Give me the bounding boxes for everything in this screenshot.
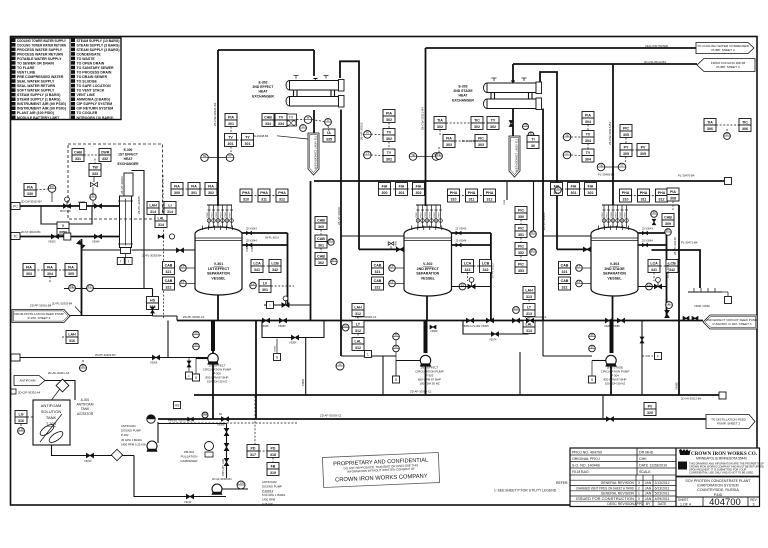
svg-text:TV: TV: [289, 116, 294, 120]
svg-text:2D-AH-30313-B4: 2D-AH-30313-B4: [681, 397, 701, 401]
svg-text:V-302: V-302: [423, 262, 432, 266]
svg-text:TI: TI: [530, 131, 533, 135]
svg-text:ZD-PF-30302-C1: ZD-PF-30302-C1: [183, 315, 205, 319]
svg-text:CAB: CAB: [317, 237, 325, 241]
svg-text:LAL: LAL: [158, 216, 166, 220]
svg-text:L: L: [367, 352, 369, 356]
svg-text:FB: FB: [271, 464, 276, 468]
svg-text:ZD-PF-30302-B4: ZD-PF-30302-B4: [95, 353, 116, 357]
svg-text:HEAT: HEAT: [259, 90, 269, 94]
svg-text:PT: PT: [329, 238, 333, 242]
svg-text:322: 322: [375, 285, 381, 289]
svg-text:25 V3043: 25 V3043: [246, 228, 257, 231]
svg-text:TW: TW: [92, 165, 98, 169]
svg-text:301: 301: [262, 288, 268, 292]
svg-text:LG: LG: [344, 324, 349, 328]
svg-text:PIC: PIC: [623, 126, 629, 130]
svg-text:LG: LG: [19, 412, 24, 416]
svg-text:TI: TI: [531, 137, 534, 141]
svg-text:PIC: PIC: [518, 244, 524, 248]
svg-text:45 GPH 1 BARG: 45 GPH 1 BARG: [121, 438, 142, 442]
svg-text:V3000: V3000: [207, 211, 209, 218]
svg-text:100 TDH 30 HZ: 100 TDH 30 HZ: [419, 382, 439, 386]
svg-text:310: 310: [243, 197, 249, 201]
svg-text:TE: TE: [411, 153, 415, 157]
svg-text:ANTIFOAM: ANTIFOAM: [76, 403, 93, 407]
svg-text:5/23/2011: 5/23/2011: [655, 492, 670, 496]
svg-text:313: 313: [526, 295, 532, 299]
svg-text:TI: TI: [307, 116, 310, 120]
svg-text:V3004: V3004: [92, 240, 100, 244]
svg-text:CWR: CWR: [101, 150, 110, 154]
svg-text:LAH: LAH: [68, 332, 76, 336]
svg-text:360: 360: [318, 225, 324, 229]
svg-text:2D-PL-30305-B4: 2D-PL-30305-B4: [142, 254, 162, 258]
svg-text:302: 302: [386, 118, 392, 122]
svg-text:V3088: V3088: [675, 382, 679, 390]
svg-text:MCV-300: MCV-300: [60, 209, 71, 213]
svg-text:AGITATOR: AGITATOR: [77, 412, 94, 416]
svg-text:LT: LT: [181, 264, 184, 268]
svg-text:LT: LT: [577, 264, 580, 268]
svg-text:V3064: V3064: [289, 341, 297, 345]
svg-text:EXCHANGER: EXCHANGER: [452, 98, 474, 102]
svg-text:FROM DISTILLATION FEED PUMP: FROM DISTILLATION FEED PUMP: [14, 312, 63, 316]
svg-text:ANTIFOAM: ANTIFOAM: [121, 424, 136, 428]
svg-text:TO COOLER: TO COOLER: [77, 111, 98, 115]
svg-text:V3033: V3033: [430, 211, 432, 218]
svg-text:301: 301: [245, 142, 251, 146]
svg-text:SOFT WATER SUPPLY: SOFT WATER SUPPLY: [17, 89, 55, 93]
svg-text:TE: TE: [365, 131, 369, 135]
svg-text:TO DISTILLATION FEED: TO DISTILLATION FEED: [711, 417, 747, 421]
svg-text:DOSING PUMP: DOSING PUMP: [262, 484, 282, 488]
svg-text:2/13/2012: 2/13/2012: [654, 481, 669, 485]
svg-text:3: 3: [638, 481, 640, 485]
svg-text:V3011: V3011: [421, 211, 423, 218]
svg-text:28-VP-30103: 28-VP-30103: [120, 176, 124, 194]
svg-text:300: 300: [174, 191, 180, 195]
svg-text:PIC: PIC: [518, 262, 524, 266]
svg-text:E-303: E-303: [458, 85, 467, 89]
svg-text:CAB: CAB: [165, 263, 173, 267]
svg-text:312: 312: [355, 346, 361, 350]
svg-text:352: 352: [518, 251, 524, 255]
svg-text:V3074: V3074: [489, 338, 497, 342]
svg-text:V3069 LCV-302 V3005: V3069 LCV-302 V3005: [462, 324, 489, 328]
svg-text:V3065: V3065: [275, 345, 277, 352]
svg-text:2D-ST-30103-B4: 2D-ST-30103-B4: [21, 230, 41, 234]
svg-text:321: 321: [166, 270, 172, 274]
svg-text:302: 302: [588, 191, 594, 195]
svg-text:P-302/303, D-300, SHEET 3: P-302/303, D-300, SHEET 3: [713, 322, 752, 326]
svg-text:PI: PI: [339, 362, 342, 366]
svg-text:JAN: JAN: [645, 492, 652, 496]
svg-text:332: 332: [102, 157, 108, 161]
svg-text:LAH: LAH: [149, 203, 157, 207]
svg-text:HS: HS: [203, 411, 207, 415]
svg-text:TO PROCESS DRAIN: TO PROCESS DRAIN: [77, 71, 112, 75]
svg-text:INSTRUMENT AIR (90 PSIG): INSTRUMENT AIR (90 PSIG): [17, 107, 66, 111]
svg-text:PROJ NO. 404700: PROJ NO. 404700: [572, 450, 602, 454]
svg-text:SCALE: SCALE: [639, 470, 651, 474]
svg-text:330: 330: [27, 192, 33, 196]
svg-text:LT: LT: [390, 280, 393, 284]
svg-text:TT: TT: [620, 163, 624, 167]
svg-text:V3000: V3000: [416, 211, 418, 218]
svg-text:HS: HS: [175, 403, 180, 407]
svg-text:FROM COOLING DRUM: FROM COOLING DRUM: [711, 61, 746, 65]
svg-text:DOSING PUMP: DOSING PUMP: [121, 429, 141, 433]
svg-text:ZD-AF-30303-C1: ZD-AF-30303-C1: [320, 414, 342, 418]
svg-text:322: 322: [562, 285, 568, 289]
svg-text:350: 350: [518, 215, 524, 219]
svg-text:301: 301: [399, 191, 405, 195]
svg-text:FIA: FIA: [382, 184, 388, 188]
svg-text:AMMONIA (3 BARG): AMMONIA (3 BARG): [77, 98, 111, 102]
svg-text:25 V3044: 25 V3044: [246, 240, 257, 243]
svg-text:TANK: TANK: [46, 415, 57, 420]
svg-text:JAN: JAN: [645, 481, 652, 485]
svg-text:351: 351: [518, 233, 524, 237]
svg-text:SOLUTION: SOLUTION: [41, 409, 62, 414]
svg-text:LV: LV: [263, 281, 268, 285]
svg-text:INSTRUMENT AIR (90 PSIG): INSTRUMENT AIR (90 PSIG): [17, 102, 66, 106]
svg-text:DATE 12/28/2010: DATE 12/28/2010: [639, 463, 667, 467]
svg-text:TV: TV: [228, 135, 233, 139]
svg-text:TT: TT: [565, 151, 569, 155]
svg-text:TY: TY: [387, 151, 392, 155]
svg-text:STEAM SUPPLY (3 BARG): STEAM SUPPLY (3 BARG): [77, 48, 120, 52]
svg-text:POTABLE WATER SUPPLY: POTABLE WATER SUPPLY: [17, 57, 62, 61]
svg-text:303: 303: [26, 272, 32, 276]
svg-text:CAB: CAB: [561, 263, 569, 267]
svg-text:V3010: V3010: [84, 459, 92, 463]
svg-text:I: I: [120, 259, 121, 263]
svg-text:306: 306: [707, 127, 713, 131]
svg-text:TO WASTE: TO WASTE: [77, 57, 96, 61]
svg-text:6/13/2011: 6/13/2011: [655, 486, 670, 490]
svg-text:2ND STAGE: 2ND STAGE: [453, 89, 473, 93]
svg-text:V3011: V3011: [184, 500, 192, 504]
svg-text:362: 362: [318, 261, 324, 265]
svg-text:I: I: [128, 259, 129, 263]
svg-text:304: 304: [585, 157, 591, 161]
svg-text:REV: REV: [750, 498, 757, 502]
svg-text:PI: PI: [82, 364, 85, 368]
svg-text:PI: PI: [653, 210, 656, 214]
svg-text:334: 334: [278, 122, 284, 126]
svg-text:V3083: V3083: [278, 324, 286, 328]
svg-text:FIA: FIA: [399, 184, 405, 188]
svg-text:28-CW-30115-B4: 28-CW-30115-B4: [608, 122, 612, 145]
svg-text:LCA: LCA: [253, 261, 261, 265]
svg-text:25 V3043: 25 V3043: [642, 228, 653, 231]
svg-text:TANK: TANK: [81, 407, 90, 411]
svg-text:ZD-PF-30303-C1: ZD-PF-30303-C1: [355, 315, 377, 319]
svg-text:LI: LI: [668, 301, 671, 305]
svg-text:F: F: [657, 354, 659, 358]
svg-text:COOLING TOWER WATER RETURN: COOLING TOWER WATER RETURN: [17, 43, 66, 47]
svg-text:314: 314: [150, 210, 156, 214]
svg-text:341: 341: [465, 268, 471, 272]
svg-text:DAMPENER: DAMPENER: [180, 459, 198, 463]
svg-text:FIA: FIA: [191, 184, 197, 188]
svg-text:2: 2: [638, 486, 640, 490]
svg-text:SEPARATION: SEPARATION: [416, 272, 439, 276]
svg-text:P-3003.2: P-3003.2: [262, 489, 274, 493]
svg-text:SEPARATION: SEPARATION: [603, 272, 626, 276]
svg-text:PHA: PHA: [486, 191, 494, 195]
svg-text:361: 361: [318, 243, 324, 247]
svg-text:PHA: PHA: [622, 191, 630, 195]
svg-text:ANTIFOAM: ANTIFOAM: [41, 403, 62, 408]
svg-text:CIP SUPPLY SYSTEM: CIP SUPPLY SYSTEM: [77, 102, 113, 106]
svg-text:LS: LS: [19, 427, 23, 431]
svg-text:CAB: CAB: [317, 254, 325, 258]
svg-text:TO SANITARY SEWER: TO SANITARY SEWER: [77, 66, 114, 70]
svg-text:V3006: V3006: [150, 362, 158, 365]
svg-text:LAL: LAL: [355, 339, 363, 343]
svg-text:TV: TV: [279, 115, 284, 119]
svg-text:FILM BAG: FILM BAG: [572, 470, 589, 474]
svg-text:PIA: PIA: [670, 190, 676, 194]
svg-text:V3022: V3022: [611, 211, 613, 218]
svg-text:1 OF 4: 1 OF 4: [680, 502, 691, 506]
svg-text:V-303: V-303: [610, 262, 619, 266]
svg-text:TT: TT: [366, 151, 370, 155]
svg-text:303: 303: [446, 143, 452, 147]
svg-text:5.00 GPH 1 BARG: 5.00 GPH 1 BARG: [262, 493, 285, 497]
svg-text:HEAT: HEAT: [124, 157, 133, 161]
svg-text:302: 302: [437, 125, 443, 129]
svg-text:321: 321: [375, 270, 381, 274]
svg-text:PIA: PIA: [585, 113, 591, 117]
svg-text:VENT LINE: VENT LINE: [77, 93, 96, 97]
svg-text:TI: TI: [327, 118, 330, 122]
svg-text:PT: PT: [531, 230, 535, 234]
svg-text:ISSUED FOR CONSTRUCTION: ISSUED FOR CONSTRUCTION: [576, 497, 635, 501]
svg-text:P-302: P-302: [121, 433, 129, 437]
svg-text:1450 RPM 0.25 KW: 1450 RPM 0.25 KW: [121, 442, 146, 446]
svg-text:DR MHD: DR MHD: [639, 450, 654, 454]
svg-text:PULSATION: PULSATION: [181, 455, 198, 459]
svg-text:STEAM SUPPLY (10 BARG): STEAM SUPPLY (10 BARG): [77, 39, 120, 43]
svg-text:2ND STAGE: 2ND STAGE: [604, 267, 625, 271]
svg-text:305: 305: [640, 152, 646, 156]
svg-text:V3001: V3001: [396, 240, 398, 247]
svg-text:V3024: V3024: [245, 243, 249, 252]
svg-text:CAB: CAB: [264, 115, 272, 119]
svg-text:311: 311: [469, 197, 475, 201]
svg-text:PI: PI: [195, 343, 198, 347]
svg-text:PI: PI: [591, 345, 594, 349]
svg-text:LT: LT: [577, 280, 580, 284]
svg-text:CAB: CAB: [561, 279, 569, 283]
svg-text:TY: TY: [491, 118, 496, 122]
svg-text:28-CW-30101-B4: 28-CW-30101-B4: [213, 102, 217, 126]
svg-text:321: 321: [562, 270, 568, 274]
svg-text:▷ SEE SHEET P FOR UTILITY LEGE: ▷ SEE SHEET P FOR UTILITY LEGEND: [494, 488, 557, 492]
svg-text:TY: TY: [586, 151, 591, 155]
svg-text:VESSEL: VESSEL: [211, 276, 226, 280]
svg-text:FE: FE: [70, 284, 74, 288]
svg-text:JAN: JAN: [645, 497, 652, 501]
svg-text:SHEET: SHEET: [678, 498, 689, 502]
svg-text:305: 305: [68, 272, 74, 276]
svg-text:DATE: DATE: [658, 502, 668, 506]
svg-text:TI: TI: [302, 124, 305, 128]
svg-text:PLANT AIR (100 PSIG): PLANT AIR (100 PSIG): [17, 111, 54, 115]
svg-text:309: 309: [665, 222, 671, 226]
svg-text:PL-30471-B4: PL-30471-B4: [681, 241, 698, 245]
svg-text:VENT LINE: VENT LINE: [17, 71, 36, 75]
svg-text:PHA: PHA: [242, 191, 250, 195]
svg-text:304: 304: [47, 272, 53, 276]
svg-text:10-PV-30112: 10-PV-30112: [490, 262, 494, 278]
svg-text:V3044: V3044: [620, 211, 622, 218]
svg-text:310: 310: [623, 197, 629, 201]
svg-text:FIA: FIA: [68, 265, 74, 269]
svg-text:PY: PY: [624, 145, 629, 149]
svg-text:PL-30465-B4: PL-30465-B4: [598, 173, 615, 177]
svg-text:TO SAFE LOCATION: TO SAFE LOCATION: [77, 84, 112, 88]
svg-text:25 V3044: 25 V3044: [456, 240, 467, 243]
svg-text:V3055: V3055: [625, 211, 627, 218]
svg-text:CAB: CAB: [374, 279, 382, 283]
svg-text:FIA: FIA: [571, 184, 577, 188]
svg-text:PV: PV: [641, 145, 646, 149]
svg-text:FIA: FIA: [208, 184, 214, 188]
svg-text:2D-AF-30301-A4: 2D-AF-30301-A4: [48, 371, 70, 375]
svg-text:BY: BY: [646, 502, 651, 506]
svg-text:TI: TI: [524, 123, 527, 127]
svg-text:TT: TT: [725, 132, 729, 136]
svg-text:305: 305: [623, 133, 629, 137]
svg-text:311: 311: [261, 197, 267, 201]
svg-text:ZD-PF-30304-C1: ZD-PF-30304-C1: [525, 315, 547, 319]
svg-text:DESC REVISION: DESC REVISION: [607, 502, 634, 506]
svg-text:341: 341: [651, 268, 657, 272]
svg-text:COUNTRYSIDE, RUSSIA: COUNTRYSIDE, RUSSIA: [697, 488, 739, 492]
svg-text:REFER:: REFER:: [556, 481, 568, 485]
svg-text:TO FLARE: TO FLARE: [17, 66, 35, 70]
svg-text:PD: PD: [251, 446, 256, 450]
svg-text:2ND EFFECT: 2ND EFFECT: [417, 267, 440, 271]
svg-text:1ST EFFECT: 1ST EFFECT: [208, 267, 230, 271]
svg-text:312: 312: [355, 329, 361, 333]
svg-text:CONFIDENTIAL USE ONLY AND IS N: CONFIDENTIAL USE ONLY AND IS NOT TO BE U…: [689, 471, 753, 475]
svg-text:1450 RPM: 1450 RPM: [262, 498, 276, 502]
svg-text:LCB: LCB: [482, 261, 490, 265]
svg-text:FIA: FIA: [47, 265, 53, 269]
svg-text:PRV-BY V30: PRV-BY V30: [221, 459, 225, 476]
svg-text:312: 312: [487, 197, 493, 201]
svg-text:341: 341: [254, 268, 260, 272]
svg-text:LCA: LCA: [650, 261, 658, 265]
svg-text:EXCHANGER: EXCHANGER: [252, 94, 274, 98]
svg-text:2D-CIP-30302-A4: 2D-CIP-30302-A4: [18, 391, 41, 395]
svg-text:335: 335: [326, 137, 332, 141]
svg-text:PRE COMPRESSED WATER: PRE COMPRESSED WATER: [17, 75, 64, 79]
svg-text:PT: PT: [531, 248, 535, 252]
svg-text:317: 317: [250, 453, 256, 457]
svg-text:V3055: V3055: [439, 211, 441, 218]
svg-text:VESSEL: VESSEL: [607, 276, 622, 280]
svg-text:2D-AF-30308-B4: 2D-AF-30308-B4: [212, 477, 232, 481]
svg-text:1: 1: [638, 492, 640, 496]
svg-text:TC: TC: [13, 235, 18, 239]
svg-text:302: 302: [416, 191, 422, 195]
svg-text:A-301: A-301: [81, 398, 90, 402]
svg-text:SEPARATION: SEPARATION: [207, 272, 230, 276]
svg-text:333: 333: [92, 172, 98, 176]
svg-text:TE: TE: [203, 154, 207, 158]
svg-text:TIC: TIC: [742, 120, 748, 124]
svg-text:PUMP, SHEET 4: PUMP, SHEET 4: [716, 65, 739, 69]
svg-text:V3011: V3011: [607, 211, 609, 218]
svg-text:301: 301: [191, 191, 197, 195]
svg-text:334: 334: [265, 122, 271, 126]
svg-text:TO COOLING WATER CONDENSER: TO COOLING WATER CONDENSER: [697, 44, 749, 48]
svg-text:PIC: PIC: [518, 226, 524, 230]
svg-text:342: 342: [483, 268, 489, 272]
svg-text:I: I: [270, 303, 271, 307]
svg-text:V3055: V3055: [230, 211, 232, 218]
svg-text:100 TDH 30 HZ: 100 TDH 30 HZ: [207, 380, 227, 384]
svg-text:302: 302: [208, 191, 214, 195]
svg-text:302: 302: [386, 137, 392, 141]
svg-text:304: 304: [585, 139, 591, 143]
svg-text:V3085 V3086: V3085 V3086: [604, 324, 620, 328]
svg-text:LAH: LAH: [354, 305, 362, 309]
svg-text:319: 319: [270, 471, 276, 475]
svg-text:CHK: CHK: [639, 457, 647, 461]
svg-text:PI: PI: [395, 345, 398, 349]
svg-text:V3011: V3011: [212, 211, 214, 218]
svg-text:PIA: PIA: [386, 111, 392, 115]
svg-text:LAL: LAL: [526, 322, 534, 326]
svg-text:300: 300: [382, 191, 388, 195]
svg-text:28-PC-30140: 28-PC-30140: [673, 237, 677, 255]
svg-text:V3090: V3090: [302, 378, 305, 386]
svg-text:306: 306: [742, 127, 748, 131]
svg-text:PI: PI: [395, 333, 398, 337]
svg-text:MODULE BATTERY LIMIT: MODULE BATTERY LIMIT: [17, 116, 60, 120]
svg-text:TY: TY: [245, 135, 250, 139]
svg-text:TT: TT: [228, 154, 232, 158]
svg-text:CAB: CAB: [664, 215, 672, 219]
svg-text:FIC: FIC: [478, 136, 484, 140]
svg-text:TV: TV: [586, 132, 591, 136]
svg-text:T-300: T-300: [46, 421, 57, 426]
svg-text:CAB: CAB: [317, 218, 325, 222]
svg-text:301: 301: [571, 191, 577, 195]
svg-text:MINNEAPOLIS MINNESOTA 55440: MINNEAPOLIS MINNESOTA 55440: [696, 457, 747, 461]
svg-text:404700: 404700: [709, 497, 741, 508]
svg-text:P-200, SHEET 2: P-200, SHEET 2: [28, 316, 51, 320]
svg-text:310: 310: [451, 197, 457, 201]
svg-text:ORIGINAL PROJ: ORIGINAL PROJ: [572, 457, 600, 461]
svg-text:V3022: V3022: [216, 211, 218, 218]
svg-text:I: I: [189, 374, 190, 378]
svg-text:CELL/CW WATER: CELL/CW WATER: [645, 44, 668, 48]
svg-text:FIA: FIA: [446, 136, 452, 140]
svg-text:ANTIFOAM: ANTIFOAM: [20, 379, 36, 383]
svg-text:2D-PL-30303-B4: 2D-PL-30303-B4: [52, 302, 73, 306]
svg-text:CAB: CAB: [165, 279, 173, 283]
svg-text:2ND EFFECT: 2ND EFFECT: [253, 85, 275, 89]
